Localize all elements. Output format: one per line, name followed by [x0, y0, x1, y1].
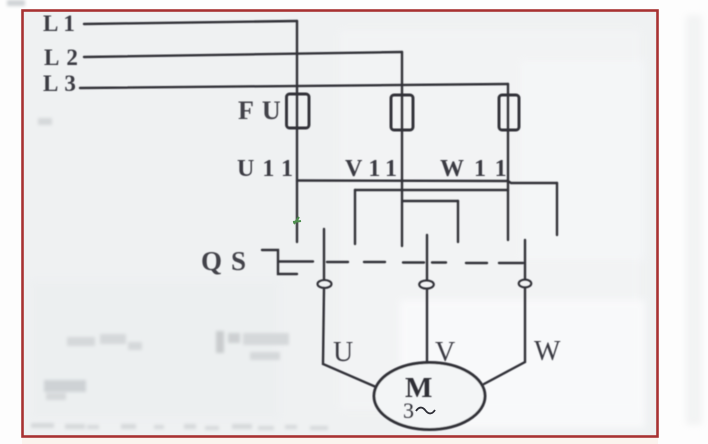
- svg-text:W: W: [534, 336, 561, 367]
- ghost bleed-through marks: [31, 118, 328, 430]
- wire V phase to motor: [426, 289, 428, 363]
- contact circle pole 1: [318, 280, 332, 288]
- wire crossover middle row: [355, 189, 508, 191]
- svg-text:L3: L3: [43, 71, 82, 96]
- svg-text:QS: QS: [201, 246, 255, 276]
- wire crossover U11 to right drop: [297, 181, 557, 184]
- wire drop at x355: [354, 190, 356, 244]
- QS switch handle: [262, 250, 297, 274]
- svg-text:3: 3: [403, 398, 414, 423]
- green mark on U11 wire: [293, 217, 301, 224]
- svg-text:L2: L2: [44, 45, 85, 70]
- svg-text:V: V: [435, 337, 455, 368]
- wire L3 vertical drop to fuse FU3: [507, 84, 509, 240]
- wire U phase to motor: [323, 288, 376, 387]
- wire L3 horizontal: [80, 84, 508, 88]
- svg-text:L1: L1: [43, 11, 80, 36]
- svg-text:FU: FU: [238, 96, 289, 125]
- wire QS pole 2 upper lead: [426, 235, 428, 280]
- wire L2 horizontal: [84, 52, 402, 57]
- contact circle pole 3: [519, 280, 532, 288]
- svg-text:V11: V11: [345, 156, 403, 182]
- wire right drop to QS pole 3: [556, 183, 558, 235]
- svg-text:W11: W11: [440, 156, 517, 182]
- fuse FU1: [287, 94, 310, 128]
- wire L1 vertical drop to fuse FU1: [296, 21, 298, 242]
- strip below bottom border: [22, 438, 658, 444]
- svg-text:U: U: [333, 337, 353, 368]
- wire W phase to motor: [484, 288, 525, 384]
- wire drop at x458: [457, 201, 459, 242]
- tilde of 3~: [416, 408, 435, 414]
- contact circle pole 2: [419, 280, 434, 288]
- motor M circle: [374, 363, 485, 430]
- wire QS pole 3 upper lead: [524, 240, 526, 279]
- QS linkage dashed line: [279, 260, 313, 262]
- wire L1 horizontal: [84, 21, 297, 24]
- right margin grey strip: [686, 15, 702, 425]
- svg-text:U11: U11: [237, 156, 301, 182]
- wire L2 vertical drop to fuse FU2: [401, 52, 403, 246]
- fuse FU3: [499, 95, 519, 130]
- smudge top-left outside: [7, 0, 25, 6]
- wire crossover V11 row: [403, 200, 458, 202]
- wire QS pole 1 upper lead: [323, 229, 325, 279]
- fuse FU2: [391, 95, 413, 130]
